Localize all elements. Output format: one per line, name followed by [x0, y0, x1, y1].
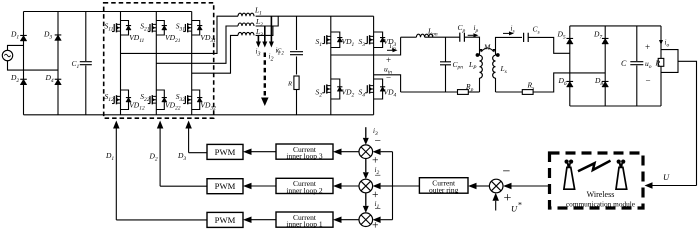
arrow bus into junction row 1 [381, 151, 393, 153]
wire bus vertical [392, 152, 394, 220]
wire L3 branch from leg3 midpoint [192, 35, 238, 73]
wire Rs to rectifier lower [533, 73, 605, 92]
svg-text:R: R [287, 81, 292, 88]
wire converter leg 2 upper [155, 12, 157, 21]
inductor L3 [238, 32, 254, 35]
wire converter leg 3 middle [191, 35, 193, 90]
svg-text:inner loop 2: inner loop 2 [286, 186, 322, 195]
wire inverter leg A middle [330, 48, 332, 80]
wire inverter leg A lower [330, 99, 332, 115]
summing junction row 2 [359, 179, 373, 193]
diode D4 [55, 79, 62, 85]
wire inverter output w1 [331, 37, 401, 55]
MOSFET S22 with diode VD22 [155, 90, 157, 110]
wire PWM to D2 column [160, 185, 207, 187]
wire converter leg 3 upper [191, 12, 193, 21]
wire rectifier leg 1 [23, 12, 25, 115]
antenna 1 [565, 160, 569, 164]
arrow junction to outer ring box [477, 185, 490, 187]
wire secondary bottom [496, 91, 523, 93]
MOSFET S2 with diode VD2 [330, 79, 332, 99]
current arrow i_in [387, 49, 393, 51]
wire L1 branch from leg1 midpoint [121, 16, 239, 53]
svg-text:R: R [655, 59, 661, 68]
arrow inner loop 1 to PWM [252, 219, 277, 221]
svg-text:−: − [503, 165, 511, 180]
wire PWM to D1 column [116, 219, 207, 221]
wire Lp bottom [479, 78, 481, 92]
inductor Lpn [416, 34, 432, 37]
wire Ls bottom [495, 78, 497, 92]
svg-text:M: M [483, 43, 491, 52]
arrow U into module [653, 185, 697, 187]
wire module to summing junction [512, 185, 550, 187]
capacitor Cp [460, 33, 465, 42]
wire inverter leg A upper [330, 16, 332, 32]
wire rectifier leg D5-D6 [569, 26, 571, 106]
wire Cp to Lp [464, 37, 479, 55]
wire converter leg 3 lower [191, 110, 193, 115]
arrow D3 up [185, 121, 192, 129]
wire source bottom lead [8, 61, 59, 70]
diode D7 [602, 38, 609, 44]
svg-text:inner loop 3: inner loop 3 [286, 152, 322, 161]
current arrow i3 [257, 35, 259, 41]
capacitor C1 [85, 12, 87, 62]
capacitor Cpn [440, 62, 451, 65]
box current inner loop 2 [276, 178, 333, 193]
wire converter leg 1 upper [120, 12, 122, 21]
summing junction outer [489, 179, 503, 193]
svg-text:communication module: communication module [566, 199, 635, 208]
arrow D2 up [157, 121, 164, 129]
svg-text:−: − [375, 204, 382, 216]
lightning bolt [578, 161, 611, 172]
MOSFET S11 with diode 11 [120, 21, 122, 36]
dot Lp [476, 53, 480, 57]
MOSFET S3 with diode VD3 [373, 32, 375, 48]
current arrow i2 [264, 26, 266, 42]
wire secondary bottom rail [570, 105, 661, 107]
dashed arrow to controller [264, 53, 266, 97]
current input arrow i1 [365, 193, 367, 206]
wire rectifier leg D7-D8 [604, 26, 606, 106]
svg-text:inner loop 1: inner loop 1 [286, 220, 322, 229]
diode D8 [602, 81, 609, 87]
summing junction row 1 [359, 145, 373, 159]
svg-text:+: + [372, 155, 379, 167]
resistor Rs [522, 90, 533, 95]
current input arrow i3 [365, 127, 367, 138]
MOSFET S1 with diode VD1 [330, 32, 332, 48]
capacitor C output [636, 26, 638, 61]
resistor R [294, 76, 299, 90]
AC source [2, 50, 12, 60]
box current outer ring [419, 178, 468, 194]
dot Ls [496, 53, 500, 57]
diode D6 [567, 81, 574, 87]
box current inner loop 1 [276, 212, 333, 227]
svg-text:−: − [375, 170, 382, 182]
wire L2 branch from leg2 midpoint [156, 26, 238, 63]
arrow junction to inner loop 1 [342, 219, 360, 221]
wire converter leg 1 middle [120, 35, 122, 90]
box PWM row 2 [207, 179, 243, 194]
wire Ls top [496, 37, 523, 55]
svg-text:U: U [511, 204, 518, 214]
wire outer ring to bus [393, 185, 420, 187]
wire top to Cp [425, 36, 460, 38]
svg-text:Wireless: Wireless [587, 190, 615, 199]
capacitor C2 [290, 52, 303, 55]
MOSFET S4 with diode VD4 [373, 79, 375, 99]
box PWM row 1 [207, 144, 243, 159]
current arrow io [660, 32, 662, 41]
wire sense line U [678, 61, 697, 185]
coil Ls [493, 55, 496, 78]
summing junction row 3 [359, 213, 373, 227]
wire L3 row merge [256, 26, 273, 35]
wire tank bottom [401, 91, 458, 93]
svg-text:−: − [375, 136, 382, 148]
wire bottom rail [24, 114, 374, 116]
svg-text:PWM: PWM [215, 147, 236, 157]
wire Cpn branch [445, 37, 447, 62]
wire voltage sense loop [661, 50, 678, 73]
wire DC link branch [296, 16, 298, 50]
dashed box wireless communication module [550, 153, 644, 208]
wire Cs to rectifier [528, 37, 570, 53]
resistor Rp [458, 90, 469, 95]
wire L2 row merge [256, 16, 279, 26]
resistor R load [658, 58, 664, 66]
capacitor Cs [524, 33, 529, 42]
arrow inner loop 2 to PWM [252, 185, 277, 187]
svg-text:−: − [646, 76, 651, 86]
diode D3 [55, 35, 62, 41]
inductor L2 [238, 23, 254, 26]
current arrow i1 [270, 16, 272, 41]
svg-text:−: − [386, 73, 391, 83]
wire inverter leg B upper [373, 16, 375, 32]
wire top rail [24, 11, 192, 13]
coil Lp [480, 55, 483, 78]
wire inverter leg B middle [373, 48, 375, 80]
wire L1 row to inverter [256, 15, 374, 17]
wire load leg [660, 26, 662, 59]
wire inverter leg B lower [373, 99, 375, 115]
arrow junction to inner loop 2 [342, 185, 360, 187]
arrow junction to inner loop 3 [342, 151, 360, 153]
arrow bus into junction row 3 [381, 219, 393, 221]
svg-text:+: + [645, 42, 650, 52]
diode D5 [567, 38, 574, 44]
wire inverter output w2 [374, 75, 401, 92]
svg-text:+: + [372, 189, 379, 201]
MOSFET S31 with diode 31 [191, 21, 193, 36]
diode D1 [20, 35, 27, 41]
svg-text:U: U [663, 172, 670, 182]
svg-text:*: * [518, 201, 522, 210]
wire converter leg 1 lower [120, 110, 122, 115]
arrow U* input [495, 201, 497, 211]
wire rectifier leg 2 [57, 12, 59, 115]
arrow D1 up [113, 121, 120, 129]
svg-text:PWM: PWM [215, 181, 236, 191]
wire converter leg 2 lower [155, 110, 157, 115]
wire source top lead [8, 45, 24, 50]
svg-text:PWM: PWM [215, 215, 236, 225]
box PWM row 3 [207, 212, 243, 227]
svg-text:+: + [386, 55, 391, 65]
svg-text:outer ring: outer ring [429, 185, 459, 194]
current input arrow i2 [365, 159, 367, 173]
diode D2 [20, 79, 27, 85]
MOSFET S32 with diode VD32 [191, 90, 193, 110]
mutual inductance M [482, 48, 494, 52]
antenna 2 [617, 160, 621, 164]
arrow bus into junction row 2 [381, 185, 393, 187]
MOSFET S12 with diode VD12 [120, 90, 122, 110]
arrow inner loop 3 to PWM [252, 151, 277, 153]
wire secondary top rail [570, 25, 661, 27]
MOSFET S21 with diode 21 [155, 21, 157, 36]
wire Rp to Lp [468, 91, 479, 93]
current arrow is [503, 32, 509, 34]
inductor L1 [238, 13, 254, 16]
wire PWM to D3 column [189, 152, 207, 154]
current arrow ip [468, 34, 474, 36]
svg-text:C: C [621, 59, 627, 68]
box current inner loop 3 [276, 144, 333, 159]
wire converter leg 2 middle [155, 35, 157, 90]
wire tank top [401, 36, 417, 38]
dashed box three-phase converter [104, 3, 214, 118]
